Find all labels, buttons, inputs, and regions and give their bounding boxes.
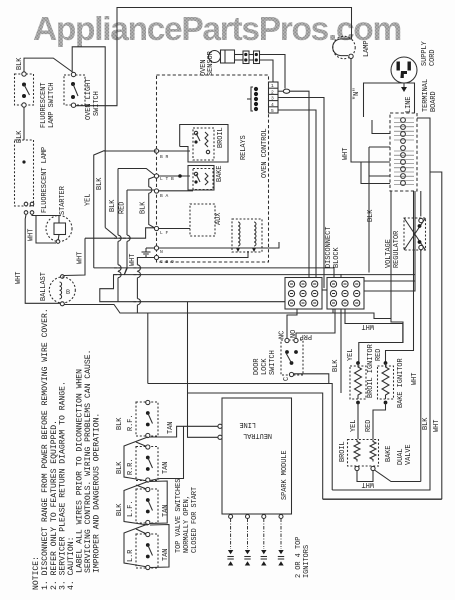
svg-text:WHT: WHT — [342, 148, 350, 160]
svg-text:WHT: WHT — [77, 252, 85, 264]
svg-text:LINE: LINE — [239, 420, 256, 428]
svg-text:STARTER: STARTER — [59, 186, 67, 215]
notice text block — [32, 308, 102, 590]
wire BLK link terminal1-terminal3 — [149, 177, 155, 228]
wire bullet connector — [278, 89, 309, 277]
wire WHT mid — [345, 309, 403, 343]
wire N neutral — [351, 59, 390, 163]
svg-text:NEUTRAL: NEUTRAL — [243, 431, 272, 439]
svg-text:REGULATOR: REGULATOR — [393, 231, 401, 268]
svg-text:YEL: YEL — [347, 349, 355, 361]
svg-text:BROIL IGNITOR: BROIL IGNITOR — [367, 344, 375, 398]
svg-text:R.R.: R.R. — [127, 458, 135, 475]
svg-text:RED: RED — [365, 420, 373, 432]
wire sensor to oven control — [260, 55, 286, 89]
svg-text:NO: NO — [290, 330, 298, 338]
svg-text:OVEN CONTROL: OVEN CONTROL — [261, 128, 269, 178]
wire loop around oven light switch label — [72, 47, 105, 106]
wire outer loop — [430, 172, 442, 499]
dual valve DV1 — [348, 440, 379, 471]
wire YEL feed staircase — [137, 313, 391, 319]
voltage regulator VR1 — [404, 191, 426, 482]
wire y268 to right block — [94, 268, 334, 278]
svg-text:BROIL: BROIL — [339, 441, 347, 462]
svg-text:1: 1 — [271, 83, 274, 89]
svg-text:BLK: BLK — [140, 201, 148, 214]
svg-text:4: 4 — [271, 102, 274, 108]
wire strip cell3 to block — [278, 98, 324, 289]
svg-text:WHT: WHT — [362, 322, 374, 330]
wire RED bus — [127, 189, 155, 191]
valve switch R.R. — [136, 445, 158, 482]
relay BAKE — [188, 166, 214, 191]
broil ignitor R1 — [350, 361, 366, 404]
wire terminal LTB down and left — [85, 228, 155, 238]
svg-text:BLK: BLK — [422, 417, 430, 430]
fluorescent lamp switch SW1 — [15, 72, 34, 107]
main cabinet border top — [76, 8, 352, 106]
relay BROIL — [180, 125, 228, 163]
svg-text:R.F.: R.F. — [127, 414, 135, 431]
wire valve WHT loop — [357, 471, 373, 482]
oven sensor RT1 — [209, 50, 244, 63]
svg-text:LAMP SWITCH: LAMP SWITCH — [48, 83, 56, 129]
svg-text:C: C — [283, 377, 291, 381]
svg-text:BLK: BLK — [16, 130, 24, 143]
svg-text:WHT: WHT — [28, 229, 36, 241]
svg-text:CORD: CORD — [429, 49, 437, 66]
svg-text:1. DISCONNECT RANGE FROM POWER: 1. DISCONNECT RANGE FROM POWER BEFORE RE… — [41, 308, 50, 590]
valve switch L.R. — [136, 532, 158, 569]
wires coils to left terminals — [159, 242, 279, 248]
wire door lock C to loop — [294, 374, 329, 384]
svg-text:B: B — [66, 289, 70, 296]
svg-text:5: 5 — [271, 108, 274, 114]
svg-text:TAN: TAN — [162, 462, 170, 474]
svg-text:YEL: YEL — [85, 194, 93, 206]
wire terminal board stubs — [372, 120, 390, 134]
oven lamp LA1 — [333, 36, 356, 58]
svg-text:B A: B A — [160, 193, 169, 199]
ballast B1 — [49, 277, 75, 306]
svg-text:VALVE: VALVE — [405, 444, 413, 465]
wire ignitor to valve yel — [357, 403, 359, 440]
svg-text:DISCONNECT: DISCONNECT — [325, 227, 333, 268]
spark module outputs — [229, 515, 283, 550]
svg-text:SWITCH: SWITCH — [269, 350, 277, 375]
wire TAN line to spark — [148, 426, 218, 437]
svg-text:2 OR 4 TOP: 2 OR 4 TOP — [295, 537, 303, 578]
wire lamp to starter — [32, 215, 59, 216]
terminal board TB1 — [390, 113, 417, 191]
wire y274 long — [124, 274, 415, 276]
relay AUX — [190, 204, 215, 236]
svg-text:BLK: BLK — [109, 199, 117, 212]
svg-text:L F: L F — [160, 230, 169, 236]
svg-text:LOCK: LOCK — [261, 358, 269, 375]
wire BLK vertical from terminal board — [368, 147, 370, 273]
wire BLK bus1 — [104, 150, 157, 152]
svg-text:SWITCH: SWITCH — [93, 91, 101, 116]
svg-text:TERMINAL: TERMINAL — [422, 79, 430, 112]
igniter gaps — [227, 550, 284, 566]
svg-text:OVEN LIGHT: OVEN LIGHT — [85, 79, 93, 120]
svg-text:PRP: PRP — [300, 332, 312, 340]
svg-text:WHT: WHT — [15, 272, 23, 284]
svg-text:BALLAST: BALLAST — [40, 272, 48, 301]
svg-text:NORMALLY OPEN,: NORMALLY OPEN, — [183, 495, 191, 553]
connector CN2 — [249, 51, 260, 64]
svg-text:TAN: TAN — [167, 422, 175, 434]
wire RED drop — [386, 191, 414, 363]
svg-text:BLK: BLK — [96, 177, 104, 190]
wire PRP — [296, 309, 335, 339]
oven control coils — [232, 219, 262, 252]
svg-text:DOOR: DOOR — [253, 358, 261, 375]
wire plug lead with arrow — [403, 83, 405, 87]
svg-text:TAN: TAN — [162, 549, 170, 561]
svg-text:BLK: BLK — [116, 461, 124, 474]
svg-text:3: 3 — [271, 96, 274, 102]
svg-text:RED: RED — [119, 202, 127, 214]
line box — [364, 83, 415, 117]
disconnect block left — [285, 278, 322, 310]
svg-text:BROIL: BROIL — [217, 127, 225, 148]
wire strip to block — [278, 110, 316, 278]
wire BLK switches top — [24, 58, 73, 72]
wire hops — [114, 187, 153, 305]
svg-text:BOARD: BOARD — [430, 91, 438, 112]
wire WHT left of lamp — [25, 215, 60, 304]
svg-text:BLK: BLK — [16, 57, 24, 70]
svg-text:WHT: WHT — [433, 420, 441, 432]
connector CN1 — [243, 51, 249, 64]
starter — [46, 216, 72, 244]
disconnect block right — [322, 278, 364, 310]
spark module SM1 — [218, 398, 292, 514]
svg-text:CLOSED FOR START: CLOSED FOR START — [191, 487, 199, 553]
svg-text:TOP VALVE SWITCHES: TOP VALVE SWITCHES — [175, 479, 183, 553]
fluorescent lamp FL1 — [15, 140, 34, 214]
svg-text:SENSOR: SENSOR — [207, 51, 215, 76]
connector pins dotted — [247, 87, 258, 111]
wire NC riser — [287, 309, 297, 339]
svg-text:LAMP: LAMP — [363, 40, 371, 57]
svg-text:IGNITORS: IGNITORS — [303, 545, 311, 578]
svg-text:BLOCK: BLOCK — [333, 246, 341, 268]
svg-text:B R: B R — [160, 154, 169, 160]
wire ballast to valve switch bus — [65, 305, 148, 384]
wire TAN links — [150, 426, 184, 480]
wire staple1 — [124, 437, 148, 481]
wire loop y383 — [148, 384, 332, 491]
svg-text:AppliancePartsPros.com: AppliancePartsPros.com — [33, 11, 401, 48]
svg-text:2: 2 — [271, 89, 274, 95]
wire neutral to spark — [188, 393, 218, 437]
svg-text:TAN: TAN — [162, 505, 170, 517]
door lock switch — [281, 338, 303, 376]
supply cord plug P1 — [391, 57, 417, 83]
svg-text:SUPPLY: SUPPLY — [421, 40, 429, 66]
oven control box — [157, 75, 269, 262]
oven light switch SW2 — [64, 72, 85, 107]
wire zigzag to spark feed — [100, 269, 285, 302]
relay header strip — [269, 82, 279, 114]
svg-text:SPARK MODULE: SPARK MODULE — [281, 450, 289, 500]
svg-text:RED: RED — [375, 349, 383, 361]
wire ballast top hook — [64, 238, 85, 275]
wire WHT bus right — [332, 118, 430, 490]
svg-text:IMPROPER AND DANGEROUS OPERATI: IMPROPER AND DANGEROUS OPERATION. — [93, 413, 102, 573]
svg-text:AUX: AUX — [215, 212, 223, 225]
svg-text:C B O: C B O — [160, 259, 174, 265]
svg-text:WHT: WHT — [129, 254, 137, 266]
wire BLK bus2 — [118, 169, 155, 176]
wires terminals into relays — [159, 150, 190, 152]
bake ignitor R2 — [378, 361, 394, 404]
svg-text:N: N — [160, 249, 163, 255]
svg-text:L.R: L.R — [127, 550, 135, 562]
svg-text:RELAYS: RELAYS — [240, 135, 248, 160]
wire to BLK run — [340, 309, 342, 393]
svg-text:BLK: BLK — [367, 209, 375, 222]
svg-text:DUAL: DUAL — [397, 448, 405, 465]
svg-text:BAKE IGNITOR: BAKE IGNITOR — [397, 358, 405, 408]
svg-text:YEL: YEL — [350, 420, 358, 432]
svg-text:LINE: LINE — [405, 96, 413, 113]
wire BLK down to fluorescent lamp — [23, 107, 25, 140]
svg-text:BLK: BLK — [332, 359, 340, 372]
svg-text:"N": "N" — [353, 88, 361, 100]
svg-text:BLK: BLK — [116, 503, 124, 516]
wire to disconnect via x415 — [364, 191, 415, 291]
svg-text:L T B: L T B — [160, 176, 174, 182]
wire staple2 — [124, 482, 148, 526]
svg-text:BLK: BLK — [116, 417, 124, 430]
oven control terminals — [154, 149, 174, 265]
wire YEL bus — [94, 151, 105, 268]
valve switch L.F. — [136, 487, 158, 524]
svg-text:FLUORESCENT LAMP: FLUORESCENT LAMP — [41, 147, 49, 213]
svg-text:WHT: WHT — [411, 373, 419, 385]
valve switch R.F. — [136, 400, 158, 437]
svg-text:NC: NC — [279, 331, 287, 339]
svg-text:VOLTAGE: VOLTAGE — [385, 239, 393, 268]
svg-text:WHT: WHT — [362, 480, 374, 488]
ground G1 — [142, 248, 155, 256]
wire loop y393 — [188, 393, 323, 499]
svg-text:BAKE: BAKE — [216, 165, 224, 182]
svg-text:L.F.: L.F. — [127, 500, 135, 517]
svg-text:NOTICE:: NOTICE: — [32, 556, 41, 590]
wire ignitor to valve red — [373, 403, 386, 440]
wire valve to BLK bus — [375, 470, 421, 482]
wire staple3 — [124, 524, 148, 567]
svg-text:BAKE: BAKE — [385, 445, 393, 462]
svg-text:FLUORESCENT: FLUORESCENT — [40, 83, 48, 129]
